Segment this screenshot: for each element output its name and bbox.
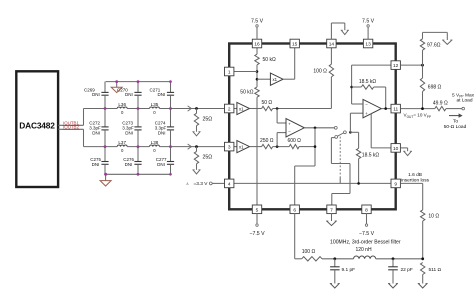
svg-text:3: 3 xyxy=(228,145,231,151)
svg-text:DNI: DNI xyxy=(125,162,133,167)
svg-text:16: 16 xyxy=(254,42,260,48)
svg-text:511 Ω: 511 Ω xyxy=(429,267,442,273)
svg-text:insertion loss: insertion loss xyxy=(401,178,430,184)
svg-text:100 Ω: 100 Ω xyxy=(313,69,327,75)
svg-text:25Ω: 25Ω xyxy=(203,117,213,123)
svg-text:1.6 dB: 1.6 dB xyxy=(408,172,422,178)
svg-text:DNI: DNI xyxy=(158,131,166,136)
svg-text:−7.5 V: −7.5 V xyxy=(249,231,265,237)
svg-text:18.5 kΩ: 18.5 kΩ xyxy=(362,152,380,158)
svg-text:L38: L38 xyxy=(151,140,159,145)
svg-text:100 Ω: 100 Ω xyxy=(302,249,316,255)
svg-text:7: 7 xyxy=(330,207,333,213)
svg-text:L35: L35 xyxy=(151,102,159,107)
svg-text:120 nH: 120 nH xyxy=(355,247,372,253)
svg-text:7.5 V: 7.5 V xyxy=(251,18,264,24)
svg-text:DAC3482: DAC3482 xyxy=(19,121,55,131)
svg-text:14: 14 xyxy=(329,42,335,48)
svg-text:11: 11 xyxy=(393,107,398,113)
svg-text:50 Ω: 50 Ω xyxy=(261,100,272,106)
svg-text:12: 12 xyxy=(393,63,399,69)
svg-text:13: 13 xyxy=(365,42,371,48)
svg-text:50-Ω Load: 50-Ω Load xyxy=(444,124,467,130)
svg-text:4: 4 xyxy=(228,181,231,187)
svg-text:L36: L36 xyxy=(118,102,126,107)
svg-text:−7.5 V: −7.5 V xyxy=(359,231,375,237)
svg-text:DNI: DNI xyxy=(125,131,133,136)
svg-text:15: 15 xyxy=(292,42,298,48)
svg-text:DNI: DNI xyxy=(125,92,133,97)
svg-text:10: 10 xyxy=(393,146,399,152)
svg-text:9.1 pF: 9.1 pF xyxy=(342,267,356,273)
svg-text:DNI: DNI xyxy=(92,162,100,167)
svg-text:+: + xyxy=(288,122,291,127)
svg-text:x1: x1 xyxy=(239,106,244,111)
svg-text:6: 6 xyxy=(293,207,296,213)
svg-text:49.9 Ω: 49.9 Ω xyxy=(433,100,448,106)
svg-text:22 pF: 22 pF xyxy=(401,267,413,273)
svg-text:To: To xyxy=(453,119,458,125)
svg-text:600 Ω: 600 Ω xyxy=(287,138,301,144)
svg-text:8: 8 xyxy=(365,207,368,213)
svg-text:250 Ω: 250 Ω xyxy=(260,138,274,144)
svg-text:x1: x1 xyxy=(239,144,244,149)
svg-text:698 Ω: 698 Ω xyxy=(428,85,442,91)
svg-text:DNI: DNI xyxy=(92,92,100,97)
svg-text:50 kΩ: 50 kΩ xyxy=(240,90,253,96)
svg-text:100MHz, 3rd-order Bessel filte: 100MHz, 3rd-order Bessel filter xyxy=(330,239,401,245)
svg-text:−: − xyxy=(365,102,368,107)
svg-text:at Load: at Load xyxy=(457,98,473,104)
svg-text:DNI: DNI xyxy=(158,92,166,97)
svg-text:25Ω: 25Ω xyxy=(203,155,213,161)
svg-text:50 kΩ: 50 kΩ xyxy=(263,57,276,63)
svg-text:+: + xyxy=(365,111,368,116)
svg-text:=3.3 V: =3.3 V xyxy=(193,181,208,187)
svg-text:DNI: DNI xyxy=(92,131,100,136)
svg-text:97.6Ω: 97.6Ω xyxy=(427,43,441,49)
svg-text:x1: x1 xyxy=(273,77,278,82)
svg-text:1: 1 xyxy=(228,70,231,76)
svg-text:DNI: DNI xyxy=(157,162,165,167)
svg-text:L37: L37 xyxy=(118,140,126,145)
svg-text:−: − xyxy=(288,129,291,134)
svg-text:2: 2 xyxy=(228,107,231,113)
svg-text:18.5 kΩ: 18.5 kΩ xyxy=(359,79,377,85)
svg-text:10 Ω: 10 Ω xyxy=(428,214,439,220)
svg-text:9: 9 xyxy=(394,181,397,187)
svg-text:5: 5 xyxy=(256,207,259,213)
svg-text:7.5 V: 7.5 V xyxy=(362,18,375,24)
